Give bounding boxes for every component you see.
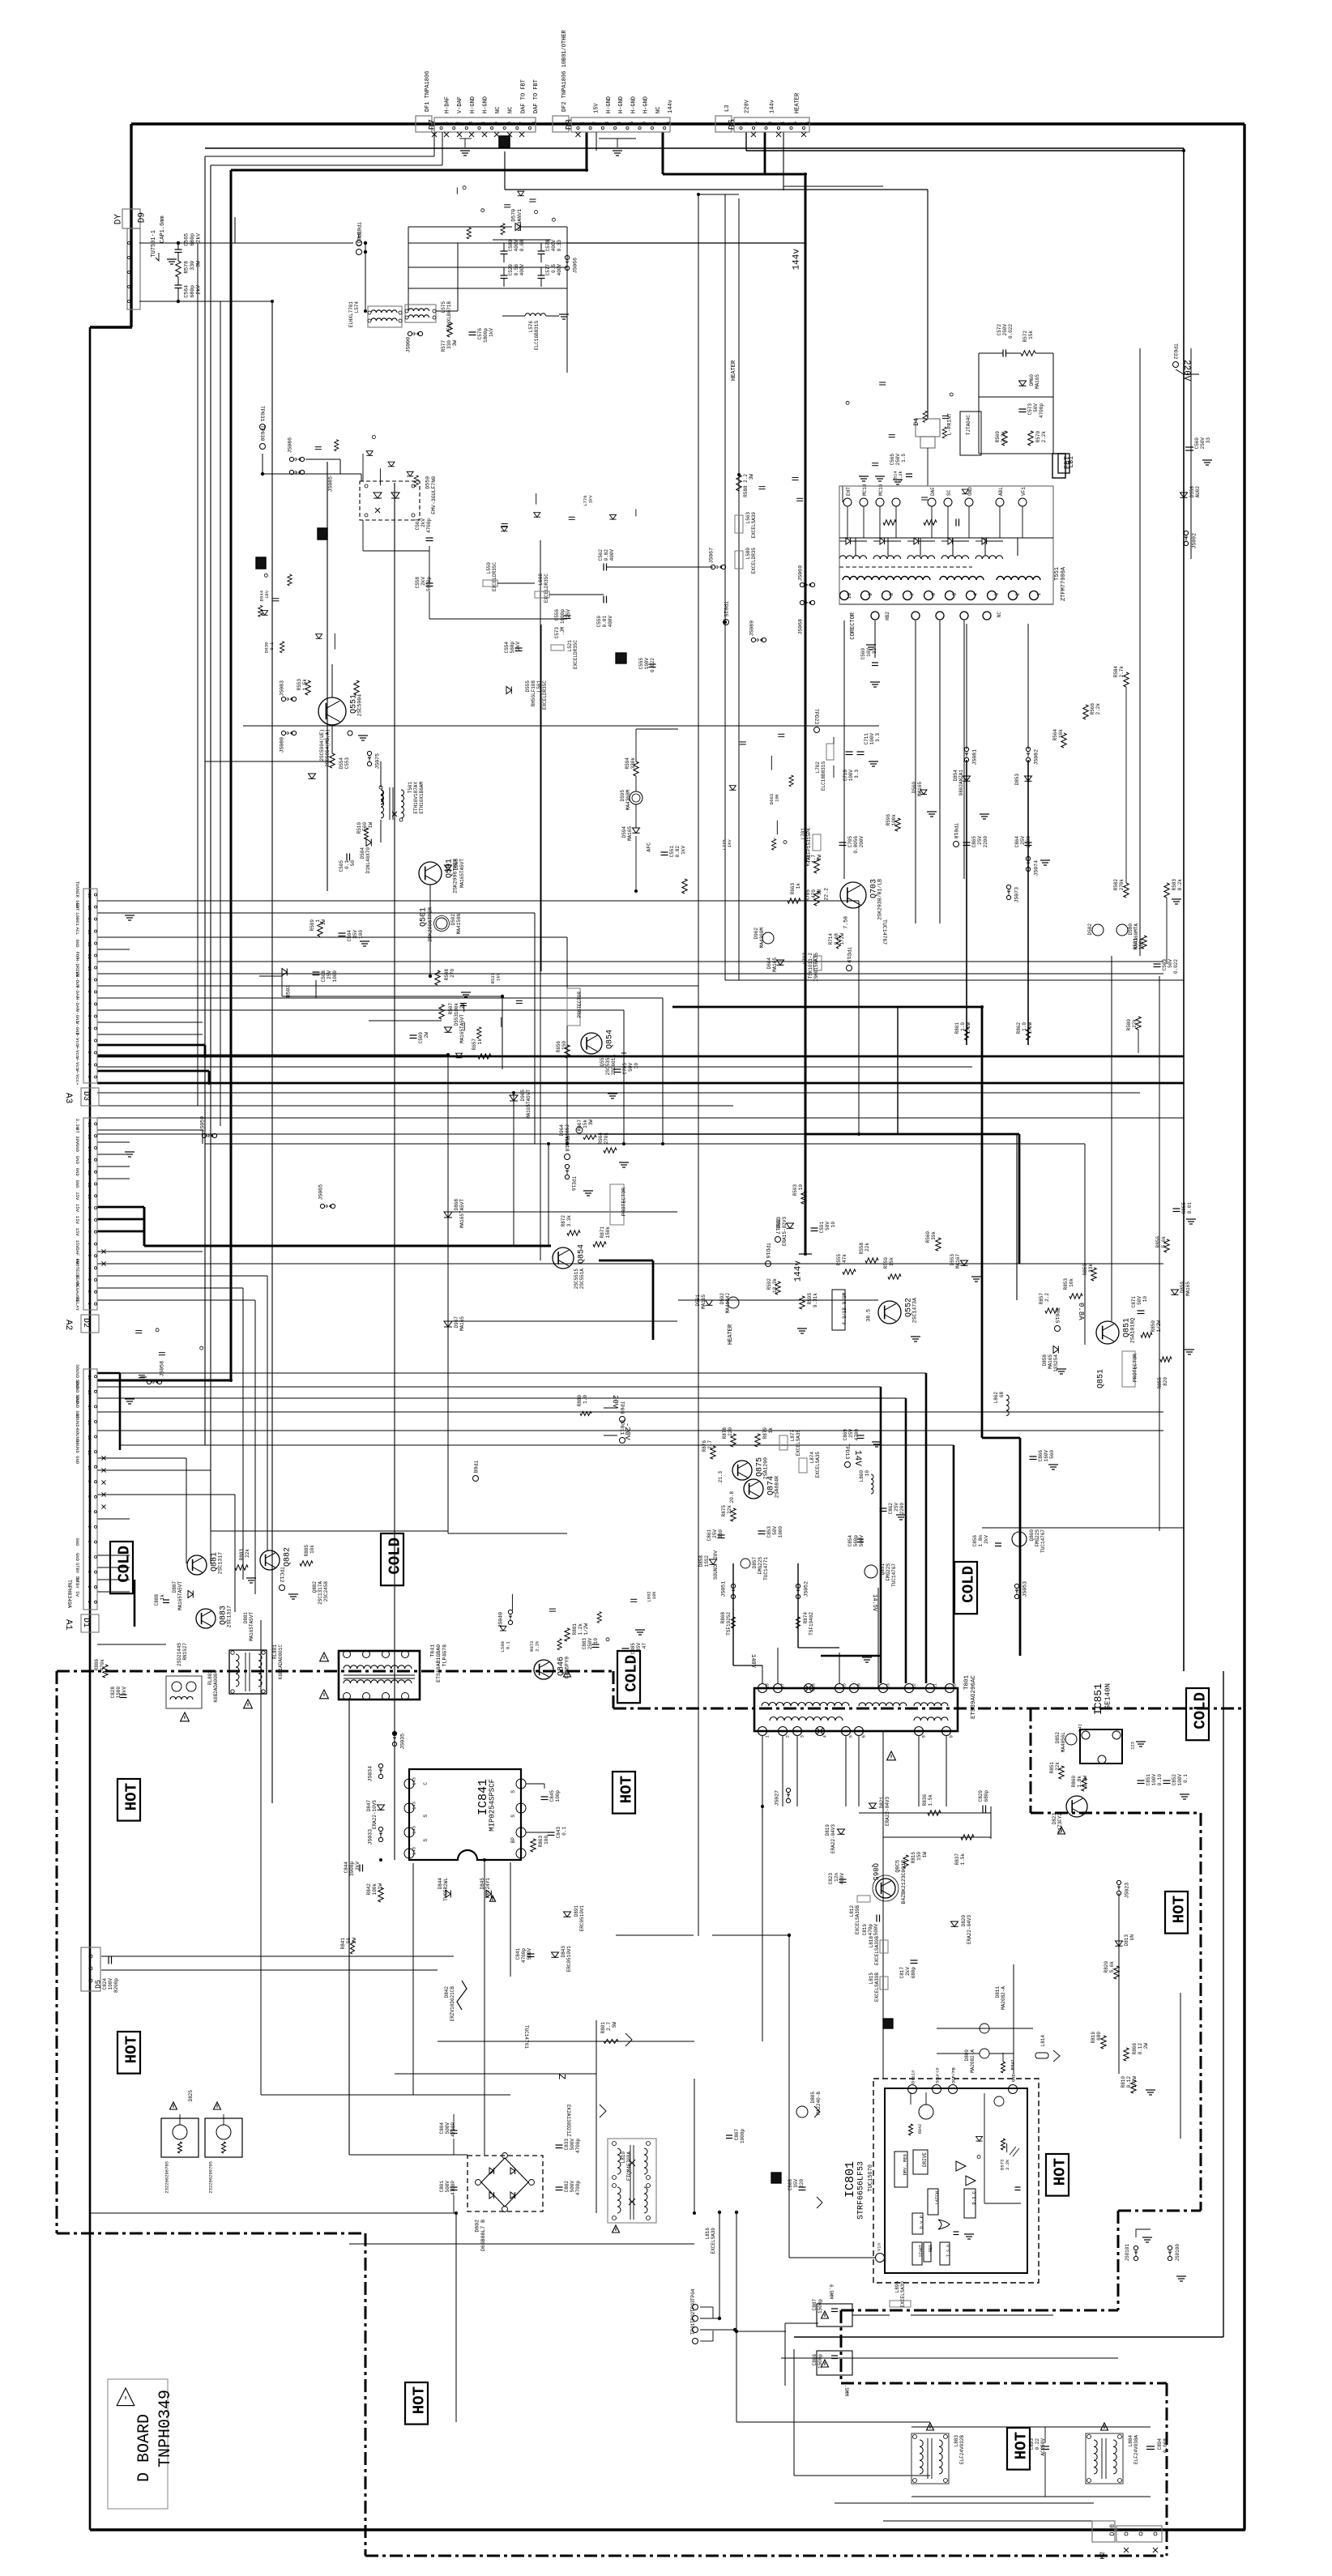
svg-text:EXCELSA35: EXCELSA35 [815, 1452, 821, 1478]
svg-text:R588 2.2: R588 2.2 [743, 474, 749, 497]
svg-text:13.3k: 13.3k [772, 1278, 778, 1293]
svg-text:9: 9 [87, 979, 92, 981]
svg-text:GND: GND [967, 487, 973, 496]
svg-text:50: 50 [350, 860, 356, 867]
svg-text:JS051: JS051 [721, 1581, 727, 1597]
svg-text:1.5: 1.5 [901, 454, 907, 463]
svg-text:D854: D854 [953, 770, 958, 782]
svg-text:R880: R880 [577, 1395, 583, 1407]
svg-text:3W: 3W [817, 889, 822, 896]
svg-text:C529: C529 [508, 264, 514, 276]
svg-text:10: 10 [1142, 1296, 1148, 1303]
svg-text:R883: R883 [239, 1549, 245, 1561]
svg-text:C828: C828 [110, 1687, 116, 1699]
svg-text:R509: R509 [310, 919, 315, 932]
svg-text:D843: D843 [561, 1946, 566, 1958]
svg-text:220V: 220V [1181, 360, 1191, 382]
svg-text:2.7: 2.7 [707, 1440, 713, 1449]
svg-text:2SA1018Q: 2SA1018Q [1130, 1318, 1136, 1343]
svg-text:15V: 15V [75, 1228, 80, 1237]
svg-text:38.5: 38.5 [866, 1309, 872, 1322]
svg-text:FMG22S: FMG22S [886, 1563, 891, 1581]
svg-text:GND: GND [75, 939, 80, 948]
svg-text:CORECTOR: CORECTOR [850, 612, 856, 639]
svg-text:12: 12 [87, 942, 92, 947]
svg-text:D592: D592 [719, 1293, 725, 1305]
svg-text:150k: 150k [605, 1226, 611, 1239]
svg-text:L561: L561 [536, 680, 542, 693]
svg-text:ERA22-10V5: ERA22-10V5 [372, 1800, 378, 1829]
svg-text:6: 6 [931, 593, 937, 596]
svg-text:1.8n: 1.8n [978, 1535, 984, 1547]
svg-text:TP015: TP015 [1054, 1307, 1060, 1324]
svg-text:68: 68 [999, 1392, 1005, 1398]
svg-text:C561: C561 [415, 518, 421, 531]
svg-text:22.2: 22.2 [824, 888, 830, 901]
svg-text:R872: R872 [561, 1215, 566, 1227]
svg-text:TSF1940Z: TSF1940Z [809, 1612, 814, 1636]
svg-text:JS080: JS080 [280, 737, 285, 753]
svg-text:TP011: TP011 [619, 1419, 625, 1435]
svg-text:C843: C843 [556, 1827, 561, 1839]
svg-text:R881: R881 [572, 1623, 578, 1636]
svg-text:D.S.C: D.S.C [971, 2190, 976, 2204]
svg-text:1500p: 1500p [818, 2354, 823, 2369]
svg-text:1/2W: 1/2W [1082, 1776, 1088, 1788]
svg-text:2200: 2200 [1026, 836, 1031, 848]
svg-text:JS086: JS086 [288, 437, 293, 454]
svg-text:C505: C505 [339, 860, 344, 872]
svg-text:TPC12: TPC12 [279, 1567, 284, 1583]
svg-text:D857: D857 [752, 1557, 758, 1569]
svg-text:47: 47 [642, 1643, 647, 1649]
svg-text:H-GND: H-GND [606, 96, 613, 113]
svg-text:100V: 100V [1177, 1774, 1183, 1786]
svg-text:10: 10 [952, 1683, 958, 1689]
svg-text:C569: C569 [1194, 437, 1200, 450]
svg-text:TP030: TP030 [259, 425, 265, 441]
svg-text:D20: D20 [1109, 2524, 1116, 2536]
svg-text:HOT: HOT [1052, 2158, 1069, 2186]
svg-text:D9: D9 [137, 212, 147, 223]
svg-text:200V: 200V [859, 836, 865, 848]
svg-text:5: 5 [793, 122, 799, 125]
svg-text:R878: R878 [722, 1427, 728, 1439]
svg-text:7ALFP15315PK: 7ALFP15315PK [806, 828, 812, 864]
svg-text:50V: 50V [1137, 1296, 1142, 1305]
svg-text:JS000: JS000 [406, 337, 412, 353]
svg-text:150: 150 [916, 1852, 922, 1861]
svg-text:H-GND: H-GND [643, 96, 650, 113]
svg-text:ELHXL7701: ELHXL7701 [348, 301, 354, 328]
svg-text:C564: C564 [184, 285, 190, 298]
svg-text:1.0: 1.0 [1022, 1022, 1027, 1031]
svg-text:L877: L877 [790, 1430, 796, 1442]
svg-text:C856: C856 [972, 1535, 978, 1547]
svg-text:R572: R572 [1022, 331, 1028, 343]
svg-text:R856: R856 [1155, 1236, 1161, 1248]
svg-text:0.1: 0.1 [561, 1827, 567, 1836]
svg-text:MIP0254SPSCF: MIP0254SPSCF [489, 1779, 497, 1832]
svg-text:EXCELDR35: EXCELDR35 [751, 548, 757, 574]
svg-text:1800p: 1800p [483, 328, 489, 343]
svg-text:141: 141 [1078, 1723, 1083, 1732]
svg-text:12: 12 [87, 1171, 92, 1175]
svg-text:Q854: Q854 [578, 1244, 587, 1264]
svg-text:13: 13 [87, 930, 92, 935]
svg-text:2SC551A: 2SC551A [579, 1269, 585, 1290]
svg-text:15: 15 [87, 1134, 92, 1139]
svg-text:ZTFM77000A: ZTFM77000A [1061, 566, 1067, 601]
svg-text:4700P: 4700P [450, 2181, 456, 2195]
svg-text:C861: C861 [707, 1529, 712, 1542]
svg-text:ERC0510V1: ERC0510V1 [566, 1946, 572, 1973]
svg-text:1/2W: 1/2W [1027, 1022, 1033, 1034]
svg-text:D881: D881 [243, 1612, 249, 1624]
svg-text:RELAY: RELAY [75, 1297, 80, 1311]
svg-text:1kV: 1kV [681, 846, 686, 855]
svg-text:R663: R663 [790, 883, 796, 895]
svg-text:JS0100: JS0100 [1175, 2244, 1180, 2262]
svg-text:MA165: MA165 [1035, 374, 1040, 389]
svg-text:1000p: 1000p [740, 2129, 745, 2143]
svg-text:0.82: 0.82 [675, 846, 681, 858]
svg-text:FBT: FBT [1064, 455, 1072, 469]
svg-text:A2: A2 [63, 1320, 73, 1330]
svg-text:C576: C576 [477, 328, 483, 340]
svg-text:C577: C577 [545, 264, 551, 276]
svg-text:JS053: JS053 [1022, 1581, 1028, 1597]
svg-text:RU3ANV1: RU3ANV1 [517, 209, 523, 231]
svg-text:2.2k: 2.2k [898, 471, 903, 482]
svg-text:D868: D868 [454, 1199, 459, 1211]
svg-text:MA167: MA167 [955, 1254, 961, 1269]
svg-text:2SC1317: 2SC1317 [218, 1552, 224, 1574]
svg-text:MA165TA5VT: MA165TA5VT [526, 1090, 532, 1119]
svg-text:C591: C591 [819, 1222, 825, 1234]
svg-text:10k: 10k [1069, 1278, 1074, 1287]
svg-text:500V: 500V [859, 1535, 865, 1547]
svg-text:R853: R853 [1063, 1278, 1069, 1290]
svg-text:2kV: 2kV [196, 285, 202, 295]
svg-text:23226629670S: 23226629670S [164, 2160, 170, 2193]
svg-text:R714: R714 [828, 933, 834, 945]
svg-text:ELF24V038A: ELF24V038A [1133, 2435, 1139, 2464]
svg-text:TJTA04C: TJTA04C [966, 415, 971, 436]
svg-text:11: 11 [87, 1450, 92, 1455]
svg-text:TP010: TP010 [953, 823, 958, 839]
svg-text:D891: D891 [574, 1905, 579, 1917]
svg-text:7: 7 [519, 122, 524, 125]
svg-text:400V: 400V [519, 264, 525, 276]
svg-text:2.7: 2.7 [606, 2022, 612, 2031]
svg-text:0.8A: 0.8A [1077, 1303, 1085, 1320]
svg-text:C560: C560 [860, 648, 866, 660]
svg-text:16V: 16V [866, 648, 872, 657]
svg-text:2.2: 2.2 [1044, 1293, 1050, 1302]
svg-text:9: 9 [87, 1480, 92, 1482]
svg-text:C804: C804 [439, 2122, 445, 2135]
svg-text:470p: 470p [868, 1924, 873, 1936]
svg-text:0.0056: 0.0056 [853, 836, 859, 854]
svg-text:D560: D560 [911, 782, 917, 794]
svg-text:144v: 144v [792, 249, 801, 271]
svg-text:MA165TA5VT: MA165TA5VT [459, 859, 465, 888]
svg-text:0.01: 0.01 [602, 616, 608, 628]
svg-text:2W: 2W [352, 1938, 357, 1944]
svg-text:TP03: TP03 [690, 2300, 696, 2312]
svg-text:0.56: 0.56 [514, 264, 519, 276]
svg-text:160V: 160V [1044, 1450, 1049, 1462]
svg-text:0.82: 0.82 [604, 549, 609, 561]
svg-text:R592: R592 [766, 1278, 772, 1290]
svg-text:470k: 470k [100, 1659, 105, 1671]
svg-text:16: 16 [87, 893, 92, 898]
svg-text:L702: L702 [815, 761, 821, 774]
svg-text:R964: R964 [598, 1132, 604, 1145]
svg-text:R558: R558 [859, 1243, 865, 1255]
svg-text:C554: C554 [504, 642, 510, 654]
svg-text:9: 9 [868, 593, 873, 596]
svg-text:22k: 22k [1055, 1762, 1061, 1771]
svg-text:HOT: HOT [123, 2036, 141, 2063]
svg-text:10: 10 [593, 1638, 599, 1644]
svg-text:10k: 10k [310, 1545, 315, 1554]
svg-text:4.3/1B.0/GM: 4.3/1B.0/GM [842, 1293, 847, 1325]
svg-text:7: 7 [87, 1230, 92, 1233]
svg-text:EXCELSA39B: EXCELSA39B [874, 1936, 880, 1965]
svg-text:2SC1317: 2SC1317 [227, 1606, 233, 1627]
svg-text:8: 8 [87, 991, 92, 993]
svg-text:13: 13 [886, 1683, 891, 1689]
svg-text:C705: C705 [622, 1063, 628, 1075]
svg-text:25V: 25V [327, 970, 332, 979]
svg-text:2kV: 2kV [421, 518, 426, 527]
svg-text:330: 330 [190, 261, 195, 271]
svg-text:REG: REG [929, 2245, 933, 2252]
svg-text:ERA15-02V3: ERA15-02V3 [782, 1217, 788, 1246]
svg-text:T841: T841 [430, 1644, 436, 1657]
svg-text:470: 470 [811, 889, 817, 898]
svg-text:MA2082-A: MA2082-A [970, 2049, 976, 2073]
svg-text:8: 8 [666, 122, 672, 125]
svg-text:L563: L563 [745, 512, 751, 524]
svg-text:10: 10 [830, 1222, 836, 1228]
svg-text:EXCELSA39B: EXCELSA39B [855, 1905, 860, 1934]
svg-text:TUC14767: TUC14767 [1040, 1529, 1046, 1553]
svg-text:8.2k: 8.2k [1177, 879, 1183, 891]
svg-text:HB2: HB2 [885, 612, 890, 621]
svg-text:1.5k: 1.5k [960, 1853, 966, 1866]
svg-text:Q8C5: Q8C5 [895, 1860, 901, 1873]
svg-text:RL802: RL802 [207, 1670, 213, 1685]
svg-text:D802: D802 [475, 2220, 480, 2233]
svg-text:MA4360M: MA4360M [625, 790, 631, 811]
svg-text:7: 7 [87, 1003, 92, 1005]
svg-text:COLD: COLD [960, 1566, 978, 1603]
svg-text:R570: R570 [1035, 431, 1041, 443]
svg-text:HOT: HOT [618, 1776, 636, 1803]
svg-text:500V: 500V [570, 2181, 575, 2193]
svg-text:D825: D825 [188, 2090, 194, 2102]
svg-text:TP032: TP032 [1172, 343, 1178, 360]
svg-text:L-PRINT: L-PRINT [947, 413, 953, 435]
svg-text:PROTECTOR: PROTECTOR [1133, 1354, 1138, 1382]
svg-text:C885: C885 [630, 1643, 636, 1655]
svg-text:330k: 330k [630, 757, 636, 770]
svg-text:L814: L814 [1040, 2035, 1046, 2047]
svg-text:DY: DY [113, 214, 123, 225]
svg-text:MC19: MC19 [878, 484, 884, 496]
svg-text:Q882: Q882 [312, 1581, 318, 1593]
svg-text:C573: C573 [554, 627, 560, 639]
svg-text:MA165TA5VT: MA165TA5VT [249, 1612, 254, 1641]
svg-text:H-GND: H-GND [630, 96, 637, 113]
svg-text:L812: L812 [849, 1905, 855, 1917]
svg-text:R837: R837 [954, 1853, 960, 1866]
svg-text:6: 6 [805, 122, 811, 125]
svg-text:1: 1 [87, 1601, 92, 1603]
svg-text:MA165: MA165 [627, 826, 633, 841]
svg-text:DRIVE: DRIVE [922, 2152, 928, 2167]
svg-text:T501: T501 [408, 782, 413, 794]
svg-text:TUC14761: TUC14761 [523, 2025, 529, 2049]
svg-text:MA165: MA165 [1185, 1282, 1191, 1296]
svg-text:R667: R667 [577, 1120, 583, 1132]
svg-text:1kV: 1kV [496, 972, 502, 981]
svg-text:3: 3 [468, 122, 474, 125]
svg-text:35V: 35V [793, 2179, 799, 2188]
svg-text:R850: R850 [1151, 1320, 1156, 1333]
svg-text:2: 2 [87, 1585, 92, 1588]
svg-text:1500p: 1500p [818, 2299, 823, 2314]
svg-text:4: 4 [780, 122, 786, 125]
svg-text:JS027: JS027 [775, 1790, 780, 1806]
svg-text:D887: D887 [172, 1581, 177, 1593]
svg-text:K2: K2 [1099, 2552, 1107, 2560]
svg-text:100V: 100V [848, 770, 854, 782]
svg-text:D823: D823 [1052, 1813, 1057, 1825]
svg-text:1k: 1k [796, 883, 801, 889]
svg-text:14: 14 [87, 1146, 92, 1151]
svg-text:150: 150 [561, 1041, 567, 1050]
svg-text:IC851: IC851 [1092, 1683, 1104, 1715]
svg-text:6: 6 [642, 122, 647, 125]
svg-text:H-GND: H-GND [470, 96, 476, 113]
svg-text:JS092: JS092 [1192, 533, 1198, 549]
svg-text:C894: C894 [1157, 2438, 1163, 2450]
svg-text:5: 5 [87, 1541, 92, 1543]
svg-text:SOUND GND: SOUND GND [75, 1439, 80, 1465]
svg-text:MA4104J: MA4104J [725, 1293, 731, 1313]
svg-text:D504: D504 [360, 847, 365, 859]
svg-text:2200: 2200 [983, 836, 988, 848]
svg-text:RL801: RL801 [272, 1644, 278, 1659]
svg-text:TNPH0349A: TNPH0349A [66, 1580, 72, 1608]
svg-text:4700p: 4700p [426, 518, 432, 533]
svg-text:JS082: JS082 [1034, 749, 1040, 766]
svg-text:ABL: ABL [998, 487, 1004, 496]
svg-text:560: 560 [362, 822, 368, 831]
svg-text:5: 5 [630, 122, 635, 125]
svg-text:TUC14771: TUC14771 [763, 1557, 769, 1580]
svg-text:8: 8 [532, 122, 537, 125]
svg-text:JS040: JS040 [498, 1612, 504, 1628]
svg-text:25V: 25V [848, 1429, 854, 1438]
svg-text:EXCELDR35C: EXCELDR35C [542, 680, 548, 710]
svg-text:25V: 25V [894, 1503, 899, 1512]
svg-text:16: 16 [856, 1683, 862, 1689]
svg-text:RN1527: RN1527 [182, 1643, 188, 1661]
svg-text:NC: NC [997, 612, 1002, 618]
svg-text:D844: D844 [438, 1878, 443, 1890]
svg-text:TP01: TP01 [690, 2322, 696, 2335]
svg-text:T801: T801 [963, 1675, 970, 1691]
svg-text:3: 3 [87, 1051, 92, 1054]
svg-text:3.3: 3.3 [875, 733, 881, 742]
svg-text:V-DAF: V-DAF [457, 96, 463, 113]
svg-text:ETS10AB1GBA0: ETS10AB1GBA0 [436, 1644, 442, 1683]
svg-text:R862: R862 [1016, 1022, 1022, 1034]
svg-text:D553: D553 [950, 1254, 955, 1266]
svg-text:2.2k: 2.2k [1041, 431, 1047, 443]
svg-text:PROTECTOR: PROTECTOR [621, 1188, 627, 1216]
svg-text:2: 2 [455, 122, 461, 125]
svg-text:R656: R656 [556, 1041, 561, 1053]
svg-text:100k: 100k [454, 1003, 459, 1015]
svg-text:ERA22-04V3: ERA22-04V3 [885, 1797, 890, 1826]
svg-text:COLD: COLD [623, 1655, 641, 1692]
svg-text:3: 3 [768, 122, 774, 125]
svg-text:0.68: 0.68 [834, 933, 839, 945]
svg-text:270: 270 [450, 969, 455, 978]
svg-text:2W: 2W [1143, 2043, 1149, 2049]
svg-text:5.6k: 5.6k [1109, 1961, 1115, 1973]
svg-text:1SS2: 1SS2 [704, 1555, 710, 1567]
svg-text:D2: D2 [81, 1318, 90, 1328]
svg-text:4: 4 [973, 593, 979, 596]
svg-text:8: 8 [87, 1495, 92, 1498]
svg-text:5: 5 [848, 1735, 854, 1738]
svg-text:10B01: 10B01 [75, 912, 80, 926]
svg-text:4700p: 4700p [521, 1948, 527, 1963]
svg-text:16: 16 [87, 1375, 92, 1380]
svg-text:400V: 400V [551, 240, 557, 252]
svg-text:C866: C866 [1038, 1450, 1044, 1462]
svg-text:TUC14767: TUC14767 [891, 1563, 897, 1587]
svg-text:10: 10 [865, 1470, 870, 1477]
svg-text:17: 17 [780, 1683, 786, 1689]
svg-text:2kV: 2kV [122, 1687, 127, 1695]
svg-text:MA165: MA165 [459, 1316, 465, 1331]
svg-text:RH5GLF108: RH5GLF108 [531, 680, 536, 707]
svg-text:FMV-3GULF7N0: FMV-3GULF7N0 [431, 476, 437, 514]
svg-text:COLD: COLD [386, 1537, 404, 1575]
svg-text:100k: 100k [891, 814, 897, 826]
svg-text:JS033: JS033 [368, 1829, 374, 1845]
svg-text:1W: 1W [368, 822, 374, 829]
svg-text:JS066: JS066 [573, 258, 578, 274]
svg-text:0.12: 0.12 [1138, 2043, 1143, 2055]
svg-text:R855: R855 [1157, 1377, 1163, 1389]
svg-text:L576: L576 [528, 321, 534, 333]
svg-text:3.3: 3.3 [854, 770, 860, 778]
svg-text:R569: R569 [995, 431, 1001, 443]
svg-text:C562: C562 [598, 549, 604, 561]
svg-text:JS075: JS075 [375, 753, 381, 770]
svg-text:L703: L703 [802, 953, 808, 965]
svg-text:C801: C801 [439, 2181, 445, 2193]
